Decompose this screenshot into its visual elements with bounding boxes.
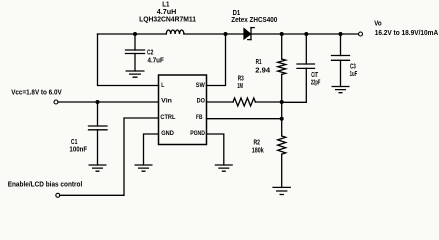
svg-text:100nF: 100nF [69, 146, 87, 153]
svg-text:Zetex ZHCS400: Zetex ZHCS400 [231, 17, 277, 24]
svg-text:R2: R2 [254, 140, 261, 147]
svg-text:1uF: 1uF [350, 71, 358, 78]
svg-text:C1: C1 [71, 139, 78, 146]
svg-text:Vo: Vo [374, 21, 381, 28]
svg-text:PGND: PGND [190, 130, 205, 137]
svg-text:1M: 1M [237, 83, 243, 90]
svg-text:2.94: 2.94 [255, 68, 270, 75]
svg-text:D1: D1 [233, 10, 241, 17]
svg-text:L1: L1 [162, 2, 169, 9]
svg-text:R1: R1 [256, 59, 262, 66]
svg-text:R3: R3 [238, 76, 244, 83]
svg-text:FB: FB [196, 114, 203, 121]
svg-text:C3: C3 [350, 64, 356, 71]
svg-text:DO: DO [197, 98, 205, 105]
svg-text:Vin: Vin [161, 98, 172, 105]
svg-text:Enable/LCD bias control: Enable/LCD bias control [8, 182, 83, 189]
svg-text:4.7uF: 4.7uF [148, 57, 165, 64]
svg-text:SW: SW [196, 82, 206, 89]
svg-text:22pF: 22pF [311, 79, 321, 86]
svg-text:CTRL: CTRL [160, 114, 175, 121]
svg-text:C2: C2 [147, 49, 153, 56]
svg-text:CIT: CIT [311, 72, 318, 79]
svg-text:LQH32CN4R7M11: LQH32CN4R7M11 [139, 16, 196, 23]
svg-text:Vcc=1.8V to 6.0V: Vcc=1.8V to 6.0V [11, 90, 62, 97]
svg-text:180k: 180k [252, 147, 264, 154]
svg-text:L: L [161, 82, 164, 89]
svg-text:4.7uH: 4.7uH [157, 9, 177, 16]
svg-text:16.2V to 18.9V/10mA: 16.2V to 18.9V/10mA [375, 30, 439, 37]
svg-text:GND: GND [161, 130, 174, 137]
